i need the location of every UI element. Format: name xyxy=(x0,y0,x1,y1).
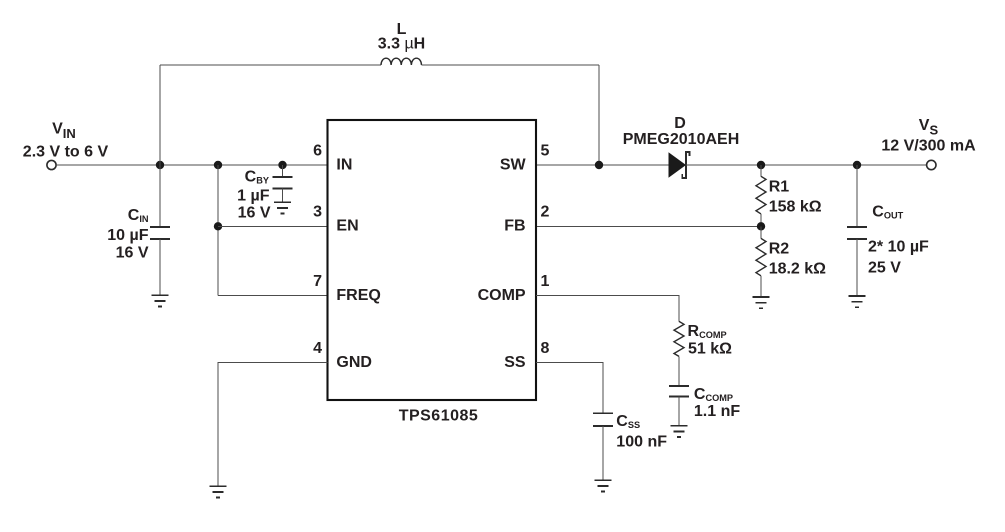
svg-text:8: 8 xyxy=(541,340,550,357)
svg-text:CCOMP: CCOMP xyxy=(694,386,733,403)
svg-text:158 kΩ: 158 kΩ xyxy=(769,199,822,216)
resistor R2 xyxy=(756,226,766,296)
terminal VIN xyxy=(47,160,56,169)
svg-text:18.2 kΩ: 18.2 kΩ xyxy=(769,261,826,278)
resistor R1 xyxy=(756,165,766,226)
svg-text:CSS: CSS xyxy=(616,413,640,430)
node EN xyxy=(214,222,222,230)
svg-text:4: 4 xyxy=(313,340,322,357)
svg-text:COUT: COUT xyxy=(872,203,903,220)
capacitor CSS xyxy=(593,413,613,480)
terminal VS xyxy=(927,160,936,169)
svg-text:2.3 V to 6 V: 2.3 V to 6 V xyxy=(23,144,109,161)
svg-text:PMEG2010AEH: PMEG2010AEH xyxy=(623,131,740,148)
wire top right xyxy=(422,64,600,66)
ground CCOMP xyxy=(671,426,688,437)
svg-text:FREQ: FREQ xyxy=(336,287,380,304)
capacitor CBY xyxy=(273,165,293,202)
svg-text:10 µF: 10 µF xyxy=(107,227,148,244)
svg-text:3.3 µH: 3.3 µH xyxy=(378,36,425,53)
svg-text:SS: SS xyxy=(504,354,526,371)
svg-text:12 V/300 mA: 12 V/300 mA xyxy=(881,138,976,155)
capacitor COUT xyxy=(847,165,867,296)
svg-text:7: 7 xyxy=(313,273,322,290)
ground GND pin xyxy=(210,486,227,497)
svg-text:16 V: 16 V xyxy=(238,205,271,222)
node COUT junction xyxy=(853,161,861,169)
svg-text:GND: GND xyxy=(336,354,372,371)
wire COMP xyxy=(536,295,679,321)
wire SS xyxy=(536,362,603,413)
ground R2 xyxy=(753,297,770,308)
svg-text:51 kΩ: 51 kΩ xyxy=(688,340,732,357)
svg-text:R2: R2 xyxy=(769,241,790,258)
inductor L xyxy=(381,58,421,65)
node VIN junction xyxy=(156,161,164,169)
wire diode to output terminal xyxy=(686,164,927,166)
capacitor CIN xyxy=(150,165,170,295)
svg-text:5: 5 xyxy=(541,142,550,159)
wire FREQ xyxy=(218,294,328,296)
wire SW riser xyxy=(598,65,600,165)
svg-text:CIN: CIN xyxy=(128,207,149,224)
wire EN xyxy=(218,225,328,227)
capacitor CCOMP xyxy=(669,386,689,425)
svg-text:6: 6 xyxy=(313,142,322,159)
node EN riser top xyxy=(214,161,222,169)
svg-text:25 V: 25 V xyxy=(868,260,901,277)
svg-text:D: D xyxy=(674,115,686,132)
wire GND pin to ground xyxy=(218,362,328,486)
svg-text:SW: SW xyxy=(500,156,527,173)
svg-text:100 nF: 100 nF xyxy=(616,433,667,450)
node SW junction xyxy=(595,161,603,169)
diode D xyxy=(669,152,687,177)
diode Schottky cathode bar xyxy=(682,152,689,178)
svg-text:VS: VS xyxy=(919,117,939,137)
svg-text:IN: IN xyxy=(336,156,352,173)
node R1 top xyxy=(757,161,765,169)
IC U1 TPS61085 xyxy=(328,120,537,400)
wire top left xyxy=(160,64,381,66)
wire input rail xyxy=(56,164,327,166)
ground CBY xyxy=(274,202,291,213)
svg-text:CBY: CBY xyxy=(245,169,269,186)
wire EN/FREQ riser xyxy=(217,165,219,295)
node FB junction xyxy=(757,222,765,230)
svg-text:16 V: 16 V xyxy=(116,245,149,262)
resistor RCOMP xyxy=(674,321,684,356)
svg-text:EN: EN xyxy=(336,218,358,235)
svg-text:1.1 nF: 1.1 nF xyxy=(694,403,740,420)
ground CSS xyxy=(595,480,612,491)
svg-text:1: 1 xyxy=(541,273,550,290)
svg-text:R1: R1 xyxy=(769,179,790,196)
svg-text:VIN: VIN xyxy=(52,120,76,141)
ground COUT xyxy=(849,296,866,307)
svg-text:FB: FB xyxy=(504,218,525,235)
svg-text:3: 3 xyxy=(313,204,322,221)
svg-text:2* 10 µF: 2* 10 µF xyxy=(868,239,929,256)
svg-text:1 µF: 1 µF xyxy=(237,188,270,205)
svg-text:RCOMP: RCOMP xyxy=(688,323,727,340)
ground CIN xyxy=(152,295,169,306)
svg-text:COMP: COMP xyxy=(478,287,526,304)
wire SW to diode xyxy=(536,164,669,166)
wire RCOMP to CCOMP xyxy=(678,356,680,386)
node CBY xyxy=(278,161,286,169)
wire riser to top xyxy=(159,65,161,165)
wire FB xyxy=(536,225,761,227)
svg-text:TPS61085: TPS61085 xyxy=(399,407,479,424)
svg-text:2: 2 xyxy=(541,204,550,221)
